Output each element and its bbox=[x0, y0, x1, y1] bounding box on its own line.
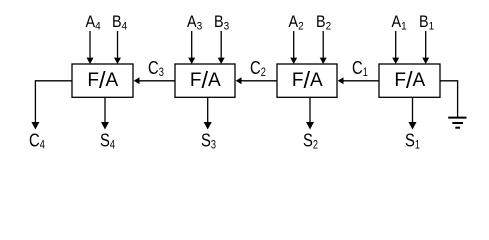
label B4 bbox=[112, 13, 127, 32]
wire output S2 bbox=[306, 97, 314, 129]
wire carry C1 (U1 to U2) bbox=[338, 77, 379, 84]
label C1 bbox=[352, 57, 368, 79]
wire input A4 bbox=[87, 31, 94, 64]
label S4 bbox=[100, 130, 115, 152]
label C4 bbox=[29, 130, 45, 152]
ground bbox=[448, 118, 466, 128]
full adder U2 (F/A, bit 2) bbox=[277, 64, 337, 97]
full adder U3 (F/A, bit 3) bbox=[175, 64, 235, 97]
label C2 bbox=[250, 57, 266, 79]
wire carry C3 (U3 to U4) bbox=[134, 77, 175, 84]
wire input A3 bbox=[188, 31, 195, 64]
label A4 bbox=[86, 13, 101, 32]
label C3 bbox=[148, 57, 164, 79]
label B1 bbox=[419, 13, 434, 32]
label A2 bbox=[289, 13, 304, 32]
wire input B4 bbox=[114, 31, 121, 64]
label S3 bbox=[201, 130, 216, 152]
svg-text:F/A: F/A bbox=[87, 67, 118, 93]
full adder U1 (F/A, bit 1) bbox=[379, 64, 440, 97]
wire output S4 bbox=[101, 97, 109, 129]
label B3 bbox=[214, 13, 229, 32]
wire output S3 bbox=[204, 97, 212, 129]
full adder U4 (F/A, bit 4) bbox=[72, 64, 133, 97]
wire input A1 bbox=[392, 31, 399, 64]
wire input A2 bbox=[290, 31, 297, 64]
wire input B3 bbox=[218, 31, 225, 64]
label S1 bbox=[405, 130, 420, 152]
wire input B2 bbox=[320, 31, 327, 64]
svg-text:F/A: F/A bbox=[190, 67, 221, 93]
wire carry-out C4 (from U4 left, down) bbox=[31, 81, 72, 130]
wire input B1 bbox=[422, 31, 429, 64]
wire carry C2 (U2 to U3) bbox=[236, 77, 277, 84]
svg-text:F/A: F/A bbox=[394, 67, 425, 93]
label S2 bbox=[303, 130, 318, 152]
wire carry-in Cin (U1 right to ground) bbox=[440, 81, 458, 118]
svg-text:F/A: F/A bbox=[292, 67, 323, 93]
label A3 bbox=[187, 13, 202, 32]
wire output S1 bbox=[409, 97, 417, 129]
label B2 bbox=[316, 13, 331, 32]
label A1 bbox=[392, 13, 407, 32]
